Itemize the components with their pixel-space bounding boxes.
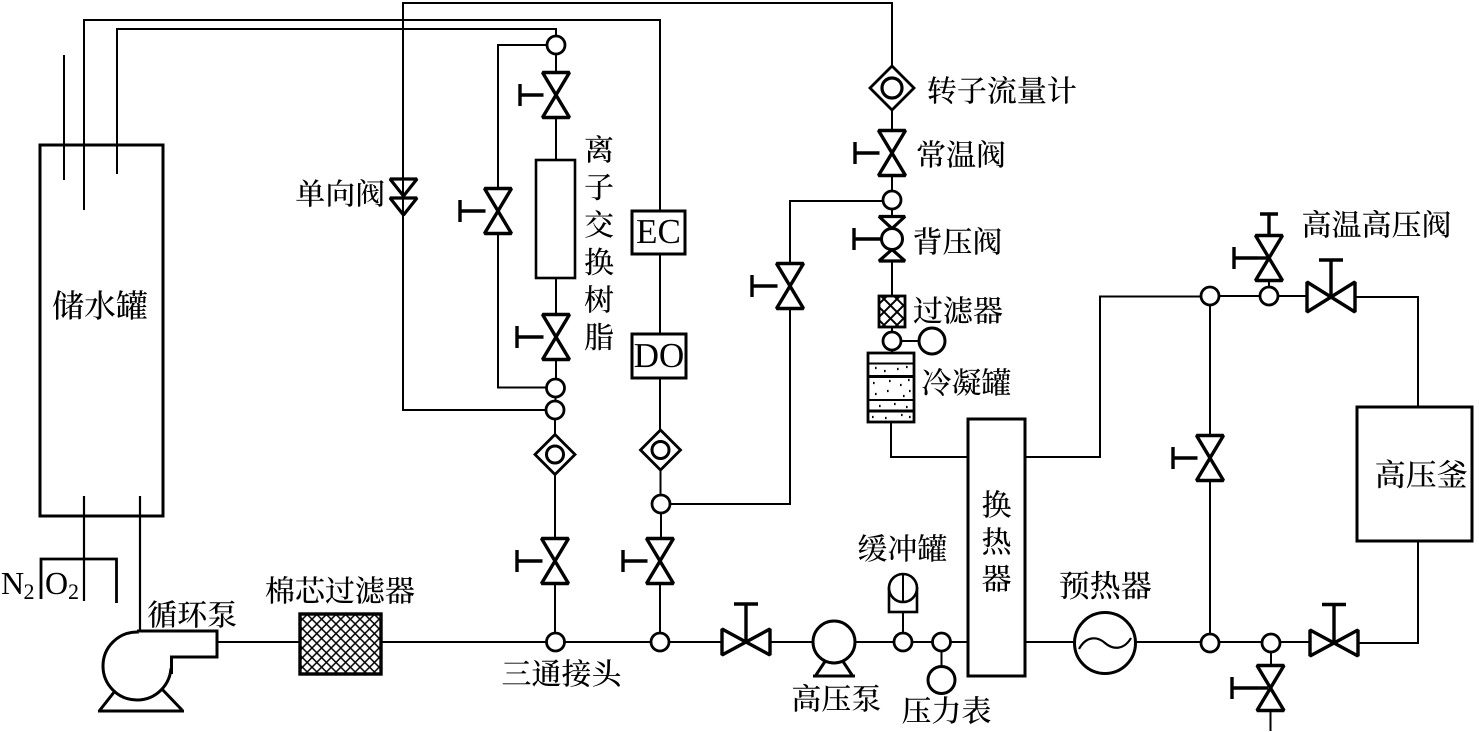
bypass valve V (on x=498): [485, 189, 512, 234]
wire: tank bottom left line (gas sparge): [83, 496, 85, 601]
tee circle (right): [651, 633, 669, 651]
wire: junction right, up to branch valve, over to back-pressure column: [670, 201, 884, 504]
wire: back-pressure valve to filter: [891, 261, 893, 296]
label 高温高压阀: [1303, 210, 1450, 238]
tee circle (preheater outlet): [1201, 634, 1219, 652]
storage tank 储水罐 vessel: [40, 145, 163, 516]
heat exchanger 换热器 box: [968, 419, 1025, 676]
high temp high pressure valve 高温高压阀: [1256, 236, 1283, 281]
junction circle (HTHP valve): [1260, 287, 1278, 305]
wire: EC to DO: [659, 254, 661, 334]
wire: tee to autoclave inlet valve: [1278, 295, 1307, 297]
label O2: [46, 573, 78, 599]
wire between junction circles: [555, 397, 557, 402]
DO meter box: [632, 334, 686, 378]
wire: valve down to main line tee: [554, 584, 556, 635]
sample branch valve: [777, 264, 804, 309]
junction circle (sample branch tee): [652, 495, 670, 513]
tee circle 三通接头 (left): [547, 633, 565, 651]
label 循环泵: [148, 600, 236, 628]
wire: check valve branch down to lower junction: [403, 216, 546, 410]
junction circle (riser tee): [1201, 287, 1219, 305]
wire: N2/O2 gas inlet bracket: [41, 559, 117, 603]
wire: valve down to main line tee: [659, 584, 661, 635]
column line valve: [542, 539, 569, 584]
junction circle above back-pressure valve: [883, 191, 901, 209]
buffer tank 缓冲罐: [889, 589, 917, 613]
wire: junction to back-pressure valve: [891, 209, 893, 217]
wire: rotameter to normal-temp valve: [891, 110, 893, 131]
autoclave 高压釜 box: [1357, 407, 1472, 541]
wire: bypass valve down to junction circle: [498, 234, 547, 388]
label 缓冲罐: [859, 534, 947, 562]
wire: tank vent line short: [63, 55, 65, 180]
wire: drain valve outlet: [1270, 711, 1272, 732]
main line outlet valve (stem up): [1310, 630, 1358, 656]
cotton filter 棉芯过滤器 crosshatch box: [300, 614, 381, 674]
wire: junction to rotameter diamond: [554, 419, 556, 435]
check valve 单向阀 (double down-triangles): [390, 179, 417, 215]
circulation pump outlet: [137, 631, 217, 671]
junction circle (top header tee): [547, 36, 565, 54]
label 转子流量计: [928, 76, 1076, 104]
pressure gauge circle: [928, 667, 955, 694]
wire: second return line into tank + header to ion-exchange branch: [117, 29, 556, 174]
wire: valve to junction: [891, 176, 893, 192]
tee circle (pressure gauge): [933, 633, 951, 651]
wire: HTHP valve stem to tee: [1268, 281, 1270, 288]
autoclave inlet valve: [1307, 282, 1355, 312]
wire: tank to circulation pump suction: [139, 496, 141, 631]
label 三通接头: [503, 659, 621, 687]
wire: main line after outlet valve up to autoclave bottom: [1358, 541, 1418, 643]
tee circle (buffer tank): [894, 633, 912, 651]
drain valve: [1257, 666, 1284, 711]
wire: junction to top column valve: [555, 54, 557, 73]
label 压力表: [903, 696, 991, 724]
label 棉芯过滤器: [266, 576, 414, 604]
label 高压釜: [1376, 459, 1467, 488]
wire: valve to junction circles: [555, 360, 557, 380]
wire: tee to drain valve: [1270, 652, 1272, 666]
wire: filter to junction circle: [891, 327, 893, 332]
column top valve: [543, 73, 570, 118]
label 离子交换树脂 (vertical): [585, 135, 614, 350]
tee circle (drain): [1262, 634, 1280, 652]
wire: DO to diamond: [659, 378, 661, 430]
junction circle (condenser top): [883, 332, 901, 350]
junction circle lower (check-valve tee): [546, 401, 564, 419]
label 储水罐: [53, 290, 147, 320]
wire: inlet valve to autoclave top: [1355, 297, 1418, 407]
wire: junction to line valve: [660, 513, 662, 539]
filter 过滤器 crosshatch box: [879, 296, 905, 327]
rotameter diamond (EC/DO branch): [641, 430, 681, 470]
circulation pump 循环泵 base: [98, 663, 184, 711]
preheater 预热器 body: [1075, 613, 1136, 674]
wire: main line pump to valve: [218, 641, 722, 643]
wire: recirculation return line into tank top + top header to EC/DO branch: [84, 20, 660, 211]
label 预热器: [1060, 571, 1151, 600]
back pressure valve 背压阀 (globe w/ circle): [879, 217, 905, 262]
right bypass valve: [1197, 436, 1224, 481]
wire: main line valve to HP-pump then to heat exchanger: [770, 641, 1310, 643]
label 背压阀: [914, 227, 1001, 255]
wire: tee down to bypass valve: [1209, 305, 1211, 436]
label 过滤器: [914, 296, 1003, 324]
wire: junction to bypass valve: [498, 45, 547, 189]
wire: bypass valve to main line tee: [1209, 481, 1211, 635]
ion exchange resin column 离子交换树脂: [536, 160, 575, 278]
condenser tank 冷凝罐: [868, 353, 914, 422]
wire: heat exchanger right to riser to top line: [1025, 297, 1201, 458]
wire: junction to vent circle: [901, 340, 919, 342]
HP pump body: [813, 621, 855, 663]
wire: diamond to junction circle: [660, 470, 662, 495]
wire: column to lower valve: [555, 278, 557, 315]
junction circle upper (bypass tee): [547, 379, 565, 397]
wire: condenser to heat exchanger: [891, 422, 968, 457]
column bottom valve: [543, 315, 570, 360]
wire: diamond to line valve: [554, 475, 556, 539]
circulation pump body: [103, 632, 171, 700]
label N2: [2, 573, 33, 599]
rotameter diamond (column branch): [535, 435, 575, 475]
wire: top header from check-valve branch to rotameter branch: [403, 3, 892, 216]
vent circle: [919, 328, 945, 354]
main line valve (stem up): [722, 629, 770, 655]
EC meter box: [632, 211, 685, 254]
label 单向阀: [296, 179, 383, 207]
wire: junction into condenser: [891, 350, 893, 353]
normal temperature valve 常温阀: [879, 131, 906, 176]
label 高压泵: [793, 684, 880, 712]
label 冷凝罐: [923, 368, 1011, 396]
HP pump base: [813, 648, 855, 676]
wire: valve to ion exchange column: [555, 118, 557, 161]
label 换热器 (vertical): [982, 490, 1011, 592]
rotameter 转子流量计 diamond: [870, 66, 914, 110]
label 常温阀: [918, 140, 1005, 168]
wire: tee to HTHP valve tee: [1219, 295, 1261, 297]
EC/DO line valve: [647, 539, 674, 584]
wire: tee to pressure gauge: [941, 651, 943, 667]
